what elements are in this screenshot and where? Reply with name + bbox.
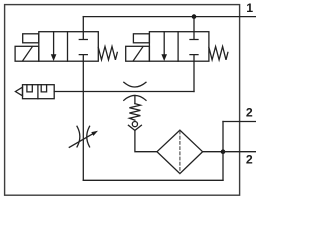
throttle adjustment arrow (69, 134, 92, 147)
wire: junction down to valve U2 top port (193, 17, 195, 32)
valve U2 position divider (177, 32, 179, 62)
svg-text:2: 2 (246, 153, 253, 167)
venturi nozzle lower arc (124, 95, 146, 100)
wire: exhaust line from silencer to valve U2 drop (54, 91, 194, 93)
wire: valve U2 bottom port down to exhaust line (193, 61, 195, 91)
valve U2 blocked top port (right square) (190, 32, 198, 40)
filter element dashed line (179, 131, 181, 173)
valve U1 flow arrow (left square) (53, 32, 55, 55)
wire: port 1 supply line (83, 16, 256, 18)
valve U2 blocked bottom port (right square) (190, 55, 198, 62)
return spring U1 (98, 47, 117, 60)
silencer divider (37, 85, 39, 99)
venturi nozzle upper arc (124, 82, 146, 87)
valve U1 blocked bottom port (right square) (79, 55, 87, 62)
svg-text:2: 2 (246, 106, 253, 120)
valve U1 position divider (67, 32, 69, 62)
wire: nozzle down to check valve spring (134, 96, 136, 104)
pilot box U1 (23, 34, 39, 43)
silencer triangle (exhaust to atmosphere) (15, 87, 22, 96)
pilot box U2 (133, 34, 149, 43)
check valve spring (129, 104, 140, 121)
silencer insert left (27, 85, 32, 92)
valve U2 body (3/2-way solenoid valve, right) (149, 32, 209, 62)
wire: riser from port 1 line down to valve U1 top port (82, 17, 84, 32)
valve U2 flow arrow (left square) (163, 32, 165, 55)
enclosure box (5, 5, 240, 196)
junction node on port 1 line above valve U2 (192, 14, 197, 19)
wire: check valve down and right to filter (135, 130, 157, 151)
valve U1 body (3/2-way solenoid valve, left) (39, 32, 99, 62)
wire: lower port 2 line to edge (223, 151, 256, 153)
filter diamond (157, 130, 203, 173)
return spring U2 (209, 47, 228, 60)
check valve ball (132, 122, 137, 127)
wire: upper port 2 line to edge (223, 121, 256, 123)
solenoid coil U2 (126, 46, 150, 61)
junction node at port 2 branch (221, 149, 226, 154)
wire: riser between port 2 lines and bottom bus (222, 122, 224, 181)
throttle valve arcs (adjustable restrictor) (77, 126, 90, 147)
silencer insert right (41, 85, 46, 92)
wire: bottom bus (83, 179, 223, 181)
svg-text:1: 1 (246, 1, 253, 15)
wire: filter to junction node (203, 151, 223, 153)
silencer body (23, 85, 55, 99)
wire: valve U1 bottom port down through throttle to bottom bus (82, 61, 84, 180)
check valve seat (128, 125, 141, 130)
solenoid coil U1 (15, 46, 39, 61)
valve U1 blocked top port (right square) (79, 32, 87, 40)
